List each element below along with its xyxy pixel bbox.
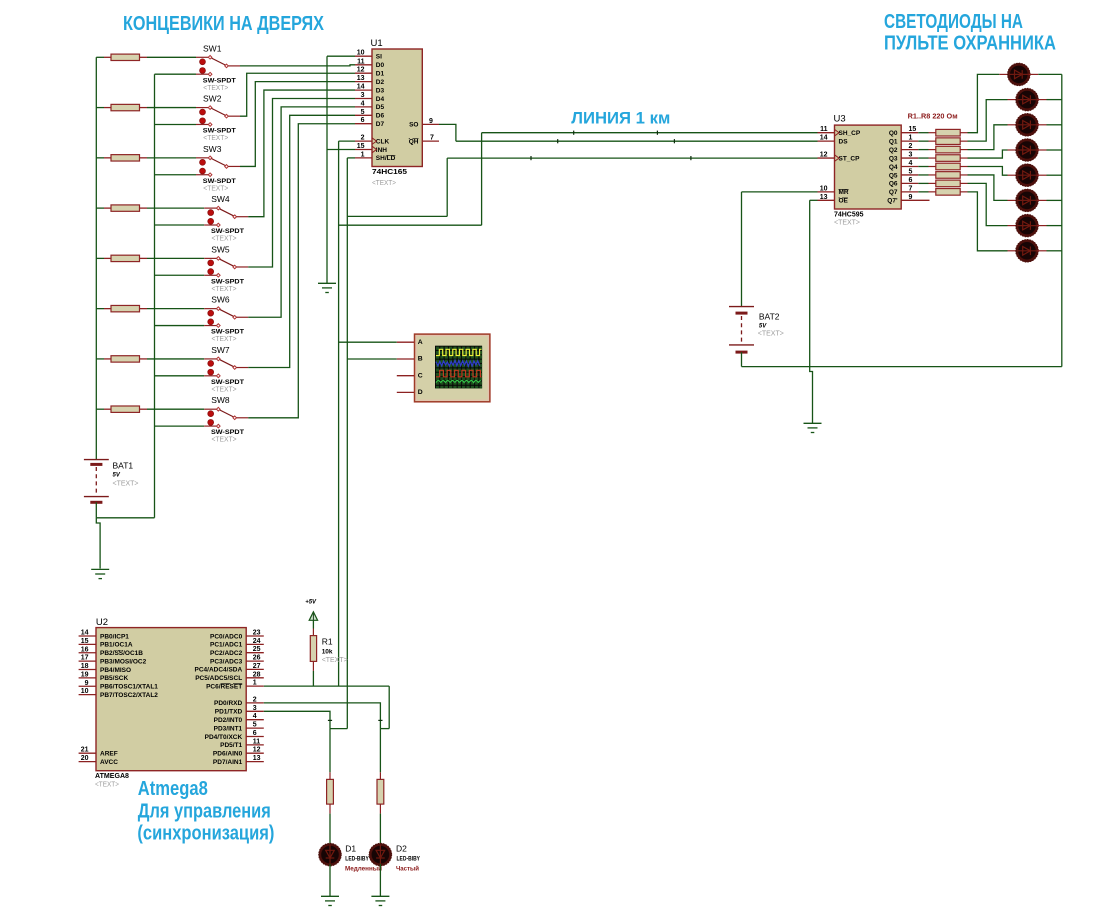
pin stub U1 D2 (pin 13) [355,81,372,83]
wire bottom rail BAT2 to LED bus [742,366,1062,368]
wire LED5 to right bus [1047,174,1062,176]
pin stub U2 PD5/T1 (pin 11) [246,744,264,746]
wire R3 to LED3 [968,125,1008,150]
wire bus to SW7 bottom contact [155,375,205,377]
switch SW1 (SW-SPDT) [196,56,240,77]
svg-text:D1: D1 [376,71,385,78]
wire V1 branch riser [481,133,483,226]
resistor R1 (220 Ом) [918,129,967,136]
svg-text:1: 1 [909,135,913,142]
pin stub U2 PC0/ADC0 (pin 23) [246,635,264,637]
svg-text:4: 4 [909,160,913,167]
svg-text:PD0/RXD: PD0/RXD [214,700,242,707]
svg-text:QH: QH [409,138,419,145]
pin stub U3 Q1 (pin 1) [901,140,918,142]
LED LED6 (panel indicator) [1016,190,1038,212]
IC U1 74HC165 body [372,49,422,167]
svg-text:SW7: SW7 [211,345,230,355]
pin stub U2 PB6/TOSC1/XTAL1 (pin 9) [79,685,96,687]
pin stub U1 D5 (pin 4) [355,106,372,108]
LED LED7 (panel indicator) [1016,215,1038,237]
oscilloscope trace B (blue signal) [436,360,480,366]
svg-text:Q7: Q7 [889,189,898,196]
svg-text:Q1: Q1 [889,138,898,145]
pin stub LED4 cathode [1037,149,1047,151]
svg-text:C: C [418,372,423,379]
wire LED1 to right bus [1038,73,1062,75]
clock marker on U3 SH_CP [835,129,840,136]
wire U2 PD0/RXD to D2 column [264,703,381,729]
LED D2 (fast indicator) [370,844,392,866]
resistor (pull-up of SW6) [96,305,147,311]
wire LED7 to right bus [1047,225,1062,227]
wire RESET net to D2 junction [380,728,389,730]
svg-text:<TEXT>: <TEXT> [95,780,120,789]
svg-text:U1: U1 [371,38,383,49]
wire LED2 to right bus [1047,99,1062,101]
svg-text:D5: D5 [376,104,385,111]
svg-text:13: 13 [253,755,261,762]
wire vertical V1 (CLK net) [338,141,340,686]
oscilloscope trace D (green sine) [436,381,481,383]
svg-text:26: 26 [253,655,261,662]
svg-text:PD1/TXD: PD1/TXD [215,709,243,716]
pin stub U2 PD6/AIN0 (pin 12) [246,752,264,754]
ground under BAT1 [91,569,109,578]
svg-text:LED-BIBY: LED-BIBY [397,856,421,862]
LED LED5 (panel indicator) [1016,164,1038,186]
svg-text:SO: SO [409,122,418,129]
svg-text:1: 1 [361,151,365,158]
svg-text:10: 10 [820,185,828,192]
pin stub LED6 cathode [1037,199,1047,201]
svg-text:6: 6 [909,177,913,184]
svg-text:12: 12 [820,152,828,159]
pin stub U1 SO (pin 9) [422,123,439,125]
svg-text:AVCC: AVCC [100,759,118,766]
svg-text:PD7/AIN1: PD7/AIN1 [213,759,243,766]
wire V1 branch to U3 SH_CP (horizontal) [339,224,482,226]
switch SW5 (SW-SPDT) [204,257,248,278]
wire V2 branch to U3 ST_CP (horizontal) [347,215,447,217]
pin stub U2 PD2/INT0 (pin 4) [246,719,264,721]
svg-text:Q7': Q7' [887,198,898,205]
LED LED1 (panel indicator) [1008,64,1030,86]
svg-text:Q6: Q6 [889,181,898,188]
pin stub oscilloscope D (unconnected) [397,391,414,393]
svg-text:A: A [418,339,423,346]
wire R1 to LED1 [968,74,1000,132]
pin stub LED5 anode [1008,174,1018,176]
svg-text:MR: MR [839,189,849,196]
svg-text:(синхронизация): (синхронизация) [137,823,274,845]
svg-text:СВЕТОДИОДЫ НА: СВЕТОДИОДЫ НА [884,11,1023,33]
wire U1 SH/LD to vertical V2 [347,157,355,159]
wire resistor to SW6 top contact [147,308,204,310]
pin stub LED8 anode [1008,250,1018,252]
svg-text:<TEXT>: <TEXT> [758,329,785,338]
svg-text:PC1/ADC1: PC1/ADC1 [210,642,243,649]
svg-text:PB4/MISO: PB4/MISO [100,667,131,674]
svg-text:PC3/ADC3: PC3/ADC3 [210,658,243,665]
pin stub U1 D3 (pin 14) [355,89,372,91]
svg-text:SW-SPDT: SW-SPDT [203,77,236,84]
svg-text:5: 5 [253,722,257,729]
svg-text:SW-SPDT: SW-SPDT [211,379,244,386]
svg-text:SW8: SW8 [211,395,230,405]
pin stub U3 Q2 (pin 2) [901,149,918,151]
svg-text:D2: D2 [376,79,385,86]
wire R8 to LED8 [968,192,1008,251]
pin stub LED4 anode [1008,149,1018,151]
wire bus to SW4 bottom contact [155,224,205,226]
svg-text:27: 27 [253,663,261,670]
wire resistor to LED D2 [379,814,381,846]
battery BAT1 [84,460,109,503]
pin stub U2 PC6/RESET (pin 1) [246,685,264,687]
wire resistor to SW2 top contact [147,107,196,109]
resistor R2 (220 Ом) [918,138,967,145]
pin stub U1 QH (pin 7, unconnected) [422,140,439,142]
junction tick on ST_CP line [530,156,532,160]
svg-text:R1..R8 220 Ом: R1..R8 220 Ом [908,113,958,120]
wire bus to SW2 bottom contact [155,123,197,125]
pin stub U1 D0 (pin 11) [355,64,372,66]
pin stub U2 PD7/AIN1 (pin 13) [246,761,264,763]
svg-text:<TEXT>: <TEXT> [203,185,228,192]
svg-text:PB5/SCK: PB5/SCK [100,675,128,682]
resistor (pull-up of SW3) [96,155,147,161]
wire U1 SI to ground bus [327,55,355,57]
svg-text:BAT1: BAT1 [113,461,134,471]
resistor (pull-up of SW5) [96,255,147,261]
pin stub U1 D1 (pin 12) [355,72,372,74]
wire vertical V2 (SH/LD net) [346,158,348,729]
wire V2 branch riser [446,158,448,216]
svg-text:<TEXT>: <TEXT> [203,85,228,92]
svg-text:15: 15 [81,638,89,645]
svg-text:3: 3 [253,705,257,712]
svg-text:D6: D6 [376,113,385,120]
wire SW8 output to U1 D7 [248,124,355,418]
junction tick on D1 column [328,719,332,721]
oscilloscope trace A (yellow square wave) [436,349,482,355]
wire SW7 output to U1 D6 [248,115,355,367]
wire BAT1 to ground [96,518,100,569]
LED LED8 (panel indicator) [1016,240,1038,262]
wire line-1km to U3 SH_CP [482,132,818,134]
pin stub LED3 cathode [1037,124,1047,126]
svg-text:<TEXT>: <TEXT> [372,178,397,187]
wire +5V to R1 [312,620,314,628]
svg-text:13: 13 [820,194,828,201]
IC U3 74HC595 body [835,125,902,209]
clock marker on U1 CLK [372,138,377,145]
svg-text:5: 5 [909,168,913,175]
pin stub U2 AVCC (pin 20) [79,761,96,763]
svg-text:U3: U3 [834,114,846,125]
svg-text:PB3/MOSI/OC2: PB3/MOSI/OC2 [100,658,147,665]
wire resistor to SW7 top contact [147,358,204,360]
pin stub U2 PC1/ADC1 (pin 24) [246,643,264,645]
pin stub LED1 anode [999,73,1009,75]
svg-text:SW1: SW1 [203,43,222,53]
wire BAT2 minus down [741,352,743,367]
resistor (series of D2) [377,772,384,813]
pin stub U2 PB0/ICP1 (pin 14) [79,635,96,637]
svg-text:<TEXT>: <TEXT> [212,336,237,343]
junction tick on DS line [557,139,559,143]
pin stub U1 CLK (pin 2) [355,140,372,142]
wire resistor to LED D1 [329,814,331,846]
clock marker on U1 INH [372,146,377,153]
battery BAT2 [729,307,754,353]
svg-text:<TEXT>: <TEXT> [834,218,861,227]
svg-text:18: 18 [81,663,89,670]
svg-text:Медленный: Медленный [345,865,382,873]
wire left resistor bus vertical [95,57,97,459]
svg-text:OE: OE [839,198,849,205]
svg-text:BAT2: BAT2 [759,312,780,322]
svg-text:ST_CP: ST_CP [839,155,861,162]
wire bus to SW5 bottom contact [155,274,205,276]
svg-text:10: 10 [81,688,89,695]
svg-text:SW2: SW2 [203,94,222,104]
svg-text:R1: R1 [322,637,333,647]
pin stub LED2 anode [1008,99,1018,101]
wire U3 OE down to ground rail [810,200,818,366]
resistor (pull-up of SW7) [96,356,147,362]
svg-text:14: 14 [81,630,89,637]
svg-text:11: 11 [357,58,365,65]
resistor R7 (220 Ом) [918,180,967,187]
pin stub U2 PB4/MISO (pin 18) [79,669,96,671]
ground at bottom rail (right) [804,423,822,432]
wire U2 PC6/RESET net horizontal [264,685,389,687]
svg-text:12: 12 [253,747,261,754]
junction tick on DS line [673,139,675,143]
svg-text:PC0/ADC0: PC0/ADC0 [210,633,243,640]
svg-text:9: 9 [429,118,433,125]
svg-text:PD6/AIN0: PD6/AIN0 [213,751,243,758]
oscilloscope trace C (red square wave) [436,370,482,377]
svg-text:ЛИНИЯ 1 км: ЛИНИЯ 1 км [571,109,670,127]
svg-text:D4: D4 [376,96,385,103]
svg-text:PB2/SS/OC1B: PB2/SS/OC1B [100,650,143,657]
svg-text:SH/LD: SH/LD [376,155,396,162]
pin stub U2 PC2/ADC2 (pin 25) [246,652,264,654]
svg-text:7: 7 [909,185,913,192]
svg-text:PC5/ADC5/SCL: PC5/ADC5/SCL [195,675,242,682]
svg-text:Q2: Q2 [889,147,898,154]
wire SW5 output to U1 D4 [248,98,355,267]
pin stub U2 PB3/MOSI/OC2 (pin 17) [79,660,96,662]
wire R4 to LED4 [968,150,1008,158]
wire SI/INH ground vertical [326,56,328,283]
svg-text:<TEXT>: <TEXT> [203,135,228,142]
pin stub U1 D6 (pin 5) [355,114,372,116]
pin stub U2 PB2/SS/OC1B (pin 16) [79,652,96,654]
switch SW6 (SW-SPDT) [204,307,248,327]
wire LED6 to right bus [1047,199,1062,201]
svg-text:INH: INH [376,147,388,154]
svg-text:PC2/ADC2: PC2/ADC2 [210,650,243,657]
svg-text:D7: D7 [376,121,385,128]
pin stub U1 D4 (pin 3) [355,98,372,100]
wire V2 end to D1 junction [330,728,347,730]
pin stub U2 AREF (pin 21) [79,752,96,754]
svg-text:13: 13 [357,75,365,82]
svg-text:<TEXT>: <TEXT> [212,236,237,243]
pin stub U2 PB1/OC1A (pin 15) [79,643,96,645]
svg-text:SW6: SW6 [211,295,230,305]
svg-text:Q0: Q0 [889,130,898,137]
pin stub U1 INH (pin 15) [355,149,372,151]
svg-text:23: 23 [253,630,261,637]
svg-text:17: 17 [81,655,89,662]
svg-text:SW-SPDT: SW-SPDT [211,429,244,436]
junction tick on ST_CP line [690,156,692,160]
wire resistor to SW8 top contact [147,408,204,410]
pin stub U3 Q6 (pin 6) [901,182,918,184]
pin stub oscilloscope C (unconnected) [397,375,414,377]
wire R7 to LED7 [968,183,1008,225]
pin stub U3 ST_CP (pin 12) [818,157,835,159]
wire U2 PD1/TXD to D1 column [264,711,330,728]
svg-text:SW-SPDT: SW-SPDT [203,178,236,185]
wire SW6 output to U1 D5 [248,107,355,317]
pin stub U3 MR (pin 10) [818,191,835,193]
pin stub U2 PC4/ADC4/SDA (pin 27) [246,668,264,670]
pin stub U3 Q7 (pin 7) [901,191,918,193]
svg-text:5: 5 [361,109,365,116]
resistor (pull-up of SW1) [96,54,147,60]
wire R6 to LED6 [968,175,1008,200]
wire SW2 output to U1 D1 [240,73,355,116]
pin stub LED6 anode [1008,199,1018,201]
svg-text:B: B [418,356,423,363]
oscilloscope screen with grid [435,346,482,389]
pin stub U2 PB7/TOSC2/XTAL2 (pin 10) [79,694,96,696]
svg-text:SW3: SW3 [203,144,222,154]
svg-text:SH_CP: SH_CP [839,130,861,137]
pin stub U2 PD0/RXD (pin 2) [246,702,264,704]
svg-text:16: 16 [81,646,89,653]
svg-text:DS: DS [839,138,849,145]
svg-text:D2: D2 [396,844,407,854]
svg-text:15: 15 [357,143,365,150]
wire SW1 output to U1 D0 [240,65,355,66]
svg-text:6: 6 [253,730,257,737]
svg-text:3: 3 [909,152,913,159]
wire switch lower-contact bus vertical [154,74,156,518]
svg-text:Atmega8: Atmega8 [138,778,208,800]
pin stub U2 PD3/INT1 (pin 5) [246,727,264,729]
ground under U1 (SI/INH) [318,283,336,292]
junction tick on SH_CP line [573,131,575,135]
svg-text:<TEXT>: <TEXT> [212,437,237,444]
svg-text:SW-SPDT: SW-SPDT [211,228,244,235]
pin stub U2 PC3/ADC3 (pin 26) [246,660,264,662]
pin stub U3 DS (pin 14) [818,140,835,142]
wire BAT1 bottom to bus [96,502,154,518]
svg-text:SW-SPDT: SW-SPDT [211,329,244,336]
svg-text:21: 21 [81,747,89,754]
power symbol +5V [305,600,317,621]
wire R5 to LED5 [968,167,1008,176]
svg-text:SW-SPDT: SW-SPDT [211,278,244,285]
pin stub LED7 anode [1008,225,1018,227]
wire bus to SW8 bottom contact [155,425,205,427]
ground under D1 [321,896,339,905]
wire U1 SO to line [439,124,456,141]
pin stub U1 SI (pin 10) [355,55,372,57]
pin stub U2 PD4/T0/XCK (pin 6) [246,736,264,738]
pin stub U3 Q5 (pin 5) [901,174,918,176]
svg-text:20: 20 [81,755,89,762]
resistor (series of D1) [327,772,334,813]
svg-text:PB7/TOSC2/XTAL2: PB7/TOSC2/XTAL2 [100,692,158,699]
switch SW3 (SW-SPDT) [196,156,240,177]
pin stub U3 Q4 (pin 4) [901,166,918,168]
svg-text:D3: D3 [376,87,385,94]
svg-text:D1: D1 [345,844,356,854]
wire resistor to SW1 top contact [147,56,196,58]
wire U1 INH to ground bus [327,149,355,151]
wire SW4 output to U1 D3 [248,90,355,217]
wire bus to SW6 bottom contact [155,325,205,327]
ground under D2 [371,896,389,905]
svg-text:D0: D0 [376,62,385,69]
svg-text:Q4: Q4 [889,164,898,171]
svg-text:<TEXT>: <TEXT> [113,479,140,488]
resistor (pull-up of SW4) [96,205,147,211]
svg-text:КОНЦЕВИКИ НА ДВЕРЯХ: КОНЦЕВИКИ НА ДВЕРЯХ [123,13,325,35]
pin stub U2 PB5/SCK (pin 19) [79,677,96,679]
wire U3 MR to BAT2 plus [742,192,818,307]
svg-text:12: 12 [357,67,365,74]
svg-text:24: 24 [253,638,261,645]
wire D2 junction down to resistor [379,729,381,773]
svg-text:15: 15 [909,126,917,133]
svg-text:AREF: AREF [100,751,118,758]
svg-text:3: 3 [361,92,365,99]
svg-text:10: 10 [357,50,365,57]
pin stub LED2 cathode [1037,99,1047,101]
pin stub LED1 cathode [1029,73,1039,75]
pin stub U3 SH_CP (pin 11) [818,132,835,134]
wire R2 to LED2 [968,100,1008,142]
svg-text:14: 14 [820,135,828,142]
wire SW3 output to U1 D2 [240,82,355,167]
wire D1 junction down to resistor [329,729,331,773]
junction tick on SH_CP line [656,131,658,135]
svg-text:PD4/T0/XCK: PD4/T0/XCK [205,734,243,741]
svg-text:ПУЛЬТЕ ОХРАННИКА: ПУЛЬТЕ ОХРАННИКА [884,33,1056,55]
pin stub LED3 anode [1008,124,1018,126]
LED LED2 (panel indicator) [1016,89,1038,111]
resistor R4 (220 Ом) [918,155,967,162]
wire line-1km to U3 DS [456,140,818,142]
svg-text:PB1/OC1A: PB1/OC1A [100,642,133,649]
svg-text:4: 4 [361,100,365,107]
svg-text:6: 6 [361,117,365,124]
pin stub U1 SHLD (pin 1) [355,157,372,159]
resistor R6 (220 Ом) [918,172,967,179]
svg-text:PB6/TOSC1/XTAL1: PB6/TOSC1/XTAL1 [100,684,158,691]
resistor R3 (220 Ом) [918,146,967,153]
svg-text:SW4: SW4 [211,194,230,204]
